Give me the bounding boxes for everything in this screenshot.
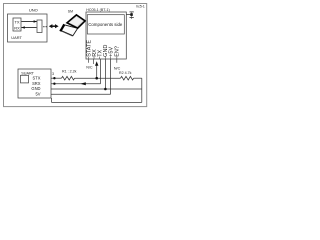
svg-text:5V: 5V — [35, 91, 40, 96]
svg-text:Components side: Components side — [88, 22, 123, 27]
svg-text:R2 4.7k: R2 4.7k — [119, 71, 132, 75]
svg-text:TX: TX — [14, 19, 19, 24]
svg-text:RX: RX — [14, 25, 20, 30]
svg-text:STX: STX — [33, 75, 41, 80]
svg-text:N/C: N/C — [86, 66, 93, 70]
svg-text:3: 3 — [52, 72, 54, 76]
svg-text:UNO: UNO — [29, 8, 38, 13]
svg-text:+5V: +5V — [108, 47, 114, 57]
svg-text:R1 : 2.2k: R1 : 2.2k — [62, 69, 77, 73]
svg-text:UART: UART — [11, 35, 22, 40]
svg-text:EN?: EN? — [115, 46, 121, 57]
svg-text:SM: SM — [68, 10, 73, 14]
svg-text:HC05-1 (BT-1): HC05-1 (BT-1) — [86, 8, 109, 12]
svg-text:SRX: SRX — [32, 81, 41, 86]
svg-text:hc5-1: hc5-1 — [136, 4, 145, 8]
svg-text:N/C: N/C — [114, 67, 121, 71]
